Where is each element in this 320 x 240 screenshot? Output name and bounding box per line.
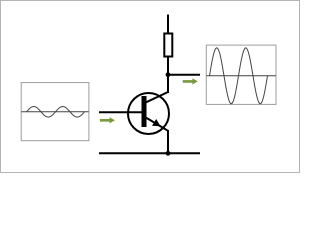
node: emitter junction — [166, 151, 171, 156]
wire: base lead from input — [99, 111, 142, 113]
output sine wave — [210, 48, 268, 104]
transistor Q1 — [128, 92, 169, 134]
wire: Vcc feed to resistor — [167, 15, 169, 34]
wire: collector node to output — [168, 74, 200, 76]
outer frame — [1, 1, 300, 173]
input scope box — [21, 83, 89, 141]
wire: bottom rail — [99, 152, 200, 154]
green arrow output — [183, 78, 198, 84]
output scope box — [206, 45, 276, 104]
node: collector junction — [166, 72, 171, 77]
input sine wave — [27, 107, 85, 118]
wire: resistor to collector node — [167, 58, 169, 94]
wire: emitter to ground rail — [167, 130, 169, 153]
resistor R1 — [164, 34, 172, 57]
green arrow input — [100, 117, 115, 123]
output signal axis — [207, 75, 276, 77]
input signal axis — [21, 111, 88, 113]
